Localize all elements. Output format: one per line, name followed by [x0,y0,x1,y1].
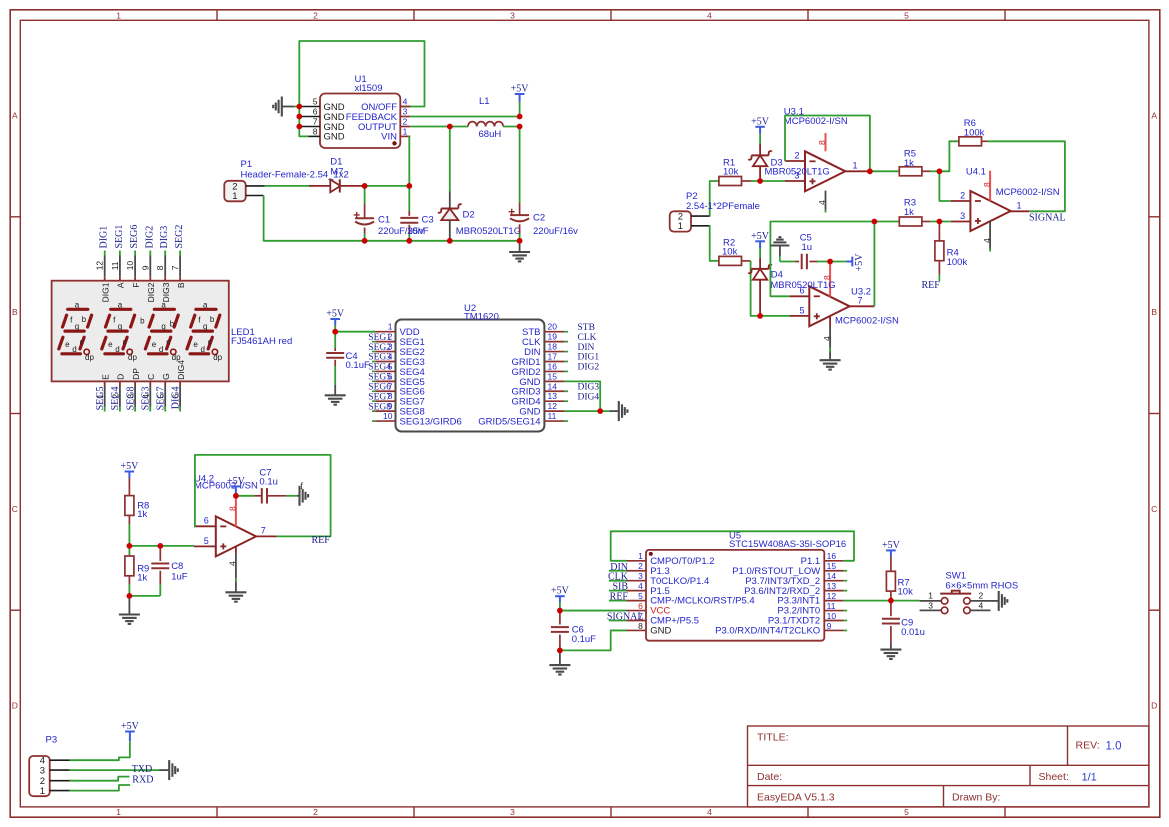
svg-text:P3: P3 [46,734,58,745]
svg-text:10: 10 [125,261,135,271]
border column ticks top and bottom [217,10,1005,817]
resistor R3 1k [899,198,930,227]
LED1 top pin 11 (A) net SEG1 [110,225,126,289]
node junction C8 top [157,543,163,549]
U2 pin 13 GRID4 net DIG4 [511,391,599,407]
U5 pin 15 P1.0/RSTOUT_LOW [732,561,847,577]
node junction R3/U3.2 loop [872,219,878,225]
LED1 top pin 9 (DIG2) net DIG2 [140,226,156,303]
svg-text:A: A [1151,111,1157,121]
U2 pin 19 CLK net CLK [522,332,597,348]
ground symbol below R9 [119,596,140,624]
resistor R7 10k [886,557,913,601]
svg-text:+5V: +5V [551,586,570,597]
svg-text:6: 6 [638,601,643,611]
svg-text:3: 3 [403,107,408,117]
wire U3.2 output up [873,222,875,307]
capacitor C6 0.1uF [551,611,596,651]
svg-text:10k: 10k [723,167,739,178]
svg-text:C3: C3 [422,214,434,225]
svg-text:DIG1: DIG1 [99,226,110,249]
wire R3 row [874,221,899,223]
ground symbol below C9 [880,649,901,651]
node junction R3/R4/pin3 [937,219,943,225]
svg-text:3: 3 [510,10,515,20]
wire FEEDBACK to +5V node [410,116,519,118]
svg-text:GND: GND [324,132,345,143]
ground arrow at U1 pin5 [273,97,299,117]
svg-text:6: 6 [313,107,318,117]
power flag +5V at D4 [751,231,770,258]
svg-text:100k: 100k [964,128,985,139]
svg-text:e: e [193,340,198,349]
wire R8/R9 node to C8 and pin5 [129,545,194,547]
U5 pin 6 VCC [627,601,671,617]
power flag +5V rotated at C5 [830,253,865,272]
svg-text:+5V: +5V [751,116,770,127]
LED1 top pin 12 (DIG1) net DIG1 [95,226,111,303]
svg-text:b: b [210,315,215,324]
border column numbers [116,10,909,817]
svg-text:f: f [300,481,303,491]
wire P1 pin1 to ground rail [264,196,520,241]
svg-text:0.1uF: 0.1uF [572,634,596,645]
node junction R7/C9/INT1 [888,598,894,604]
svg-text:3: 3 [40,765,45,776]
svg-text:18: 18 [548,342,558,352]
connector P1 Header-Female-2.54_1x2 [224,159,348,202]
svg-text:DP: DP [131,368,141,380]
resistor R6 100k [959,118,988,146]
U2 pin 14 GRID3 net DIG3 [511,381,599,397]
svg-text:13: 13 [827,581,837,591]
wire U2 pin15 GND [565,381,601,411]
svg-text:11: 11 [548,411,557,421]
svg-text:MBR0520LT1G: MBR0520LT1G [456,226,521,237]
U2 pin 20 STB net STB [522,322,595,338]
ground symbol U3.2 pin4 [820,359,841,361]
svg-text:SEG1: SEG1 [114,225,125,249]
U2 pin 3 SEG2 net SEG2 [368,342,425,358]
wire P2 pin2 to R1 [709,181,719,216]
node junction R1/D3/pin3 [757,178,763,184]
svg-text:4: 4 [638,581,643,591]
node junction C6/GND [557,648,563,654]
capacitor C7 0.1u [236,468,297,504]
U2 pin 7 SEG6 net SEG6 [368,381,425,397]
svg-text:+5V: +5V [326,309,345,320]
capacitor C2 220uF/16v [509,127,578,241]
svg-text:8: 8 [155,265,165,270]
svg-text:C: C [1151,504,1157,514]
svg-text:1: 1 [232,191,237,202]
U2 pin 12 GND [519,401,564,417]
svg-text:7: 7 [261,525,266,535]
node junction R9/C8 bottom [126,593,132,599]
svg-text:a: a [203,301,208,310]
svg-text:5: 5 [204,536,209,546]
svg-text:8: 8 [638,621,643,631]
svg-text:SEG3: SEG3 [141,387,152,411]
svg-text:16: 16 [827,551,837,561]
svg-text:g: g [161,322,165,331]
node junction R5/R6/pin2 [937,168,943,174]
wire P3 pin2 RXD [70,777,130,781]
power flag +5V at P3 [121,721,140,741]
node junction pin8/C7 [233,493,239,499]
capacitor C1 220uF/35V [354,186,425,241]
svg-text:FJ5461AH red: FJ5461AH red [231,336,292,347]
svg-text:3: 3 [510,807,515,817]
U2 pin 17 GRID1 net DIG1 [511,351,599,367]
svg-text:STB: STB [578,323,595,333]
svg-text:a: a [118,301,123,310]
svg-text:1u: 1u [802,242,813,253]
svg-text:B: B [176,282,186,288]
svg-text:D: D [116,374,126,380]
svg-text:9: 9 [140,265,150,270]
svg-text:SIGNAL: SIGNAL [1029,213,1066,224]
svg-text:GND: GND [650,626,671,637]
svg-text:0.1u: 0.1u [259,476,278,487]
node junction rail/C3 [406,238,412,244]
U2 pin 5 SEG4 net SEG4 [368,361,425,377]
svg-text:EasyEDA V5.1.3: EasyEDA V5.1.3 [757,792,835,804]
svg-text:12: 12 [548,401,558,411]
svg-text:U4.1: U4.1 [966,166,986,177]
svg-text:D: D [12,701,18,711]
svg-text:4: 4 [817,200,827,205]
svg-text:10k: 10k [722,246,738,257]
border row letters [12,111,1158,711]
svg-text:STC15W408AS-35I-SOP16: STC15W408AS-35I-SOP16 [729,539,846,550]
svg-text:B: B [1151,307,1157,317]
op-amp U3.2 MCP6002-I/SN [790,262,899,361]
svg-text:E: E [100,374,110,380]
ground symbol power rail [509,241,530,262]
svg-text:C1: C1 [378,214,390,225]
wire U3.2 feedback loop [770,222,874,297]
ground arrow at U2 [610,401,628,421]
svg-text:C: C [146,374,156,380]
svg-text:dp: dp [213,353,222,362]
U2 pin 10 SEG13/GIRD6 [372,411,462,427]
wire P2 pin1 to R2 [709,226,719,261]
capacitor C8 1uF [129,546,187,596]
svg-text:DIG3: DIG3 [161,282,171,302]
inductor L1 68uH [468,96,503,140]
resistor R1 10k [719,158,751,186]
svg-text:DIG4: DIG4 [170,387,181,410]
svg-text:2: 2 [960,190,965,200]
LED1 digit 3 segments [140,301,181,363]
svg-text:D4: D4 [771,269,783,280]
svg-text:1/1: 1/1 [1082,772,1097,784]
LED1 bottom pin 2 (D) net SEG4 [110,374,126,412]
wire U1 feedback loop (pin4 to GND column) [299,41,424,107]
svg-text:17: 17 [548,351,558,361]
node junction U3.1 output [867,168,873,174]
wire +5V to U2 VDD [335,331,375,333]
chip U1 xl1509 [299,74,410,148]
svg-text:dp: dp [85,353,94,362]
svg-text:5: 5 [904,807,909,817]
svg-text:SEG6: SEG6 [129,225,140,249]
svg-text:1: 1 [638,551,643,561]
svg-text:3: 3 [928,600,933,610]
svg-text:4: 4 [707,807,712,817]
resistor R5 1k [899,149,930,176]
svg-text:A: A [12,111,18,121]
LED1 digit 4 segments [187,301,223,363]
svg-text:SEG2: SEG2 [174,225,185,249]
node junction C5/pin8 [827,259,833,265]
svg-text:2: 2 [979,591,984,601]
svg-text:RXD: RXD [132,775,153,786]
U5 pin 3 T0CLKO/P1.4 net CLK [608,571,709,587]
svg-text:1: 1 [388,322,393,332]
svg-text:6: 6 [204,516,209,526]
svg-text:8: 8 [313,127,318,137]
svg-text:D: D [1151,701,1157,711]
svg-text:4: 4 [228,561,238,566]
svg-text:+5V: +5V [751,231,770,242]
diode D2 MBR0520LT1G [438,127,521,241]
node junction OUTPUT/D2 [447,124,453,130]
wire U3.1 feedback loop [785,116,870,172]
U5 pin 10 P3.1/TXDT2 [768,611,847,627]
U2 pin 11 GRID5/SEG14 [478,411,568,427]
wire U4.2 feedback loop [194,455,331,537]
U2 pin 6 SEG5 net SEG5 [368,371,425,387]
svg-text:2: 2 [313,10,318,20]
svg-text:1k: 1k [137,572,147,583]
svg-text:2: 2 [313,807,318,817]
power flag +5V main output [511,84,530,117]
svg-text:1: 1 [40,786,45,797]
svg-text:b: b [140,317,145,326]
svg-text:D2: D2 [463,210,475,221]
svg-text:L1: L1 [479,96,490,107]
diode D3 MBR0520LT1G [748,144,830,181]
wire U5 VCC to +5V [560,610,627,612]
LED1 bottom pin 5 (G) net SEG7 [155,373,171,411]
svg-text:+5V: +5V [854,253,865,272]
connector P3 header [29,734,69,797]
node junction R2/D4/pin5 [757,313,763,319]
svg-text:2: 2 [403,117,408,127]
svg-text:1k: 1k [137,509,147,520]
svg-text:SEG8: SEG8 [125,387,136,411]
wire node to U3.1 pin3 [760,180,785,182]
LED1 top pin 7 (B) net SEG2 [170,225,186,289]
svg-text:5: 5 [313,97,318,107]
svg-text:13: 13 [548,391,558,401]
resistor R8 1k [125,478,149,546]
svg-text:DIN: DIN [578,343,595,353]
LED1 top pin 10 (F) net SEG6 [125,225,141,288]
svg-text:+5V: +5V [882,540,901,551]
svg-text:DIG3: DIG3 [159,226,170,249]
svg-text:G: G [161,373,171,380]
svg-text:REF: REF [312,535,331,546]
svg-text:REV:: REV: [1076,740,1100,752]
node junction rail/C1 [362,238,368,244]
svg-text:e: e [108,340,113,349]
capacitor C9 0.01u [882,601,925,650]
svg-text:g: g [203,322,207,331]
svg-text:15: 15 [548,371,558,381]
svg-text:C: C [12,504,18,514]
ground arrow at P3 pin3 [159,760,178,780]
U5 pin 1 CMPO/T0/P1.2 [627,551,715,567]
svg-text:b: b [82,315,87,324]
wire U1 left GND column [299,107,308,137]
diode D1 M7 [309,157,365,193]
svg-text:c: c [208,338,212,347]
svg-text:2: 2 [638,561,643,571]
svg-text:VIN: VIN [381,132,397,143]
svg-text:14: 14 [827,571,837,581]
node junction R8/R9/C8 [126,543,132,549]
wire R1 to D3 node [751,180,760,182]
svg-text:c: c [123,338,127,347]
wire U2 pin12 GND [565,410,610,412]
svg-text:SEG5: SEG5 [95,387,106,411]
svg-text:d: d [72,345,76,354]
U5 pin 5 CMP-/MCLKO/RST/P5.4 net REF [610,591,755,607]
power flag +5V at R8 [120,461,139,478]
svg-text:1.0: 1.0 [1106,741,1122,753]
svg-text:4: 4 [822,336,832,341]
svg-text:8: 8 [228,506,238,511]
wire P3 pin3 TXD [70,769,160,771]
svg-text:1k: 1k [904,207,914,218]
svg-text:7: 7 [313,117,318,127]
svg-text:19: 19 [548,332,558,342]
wire R2 to D4 node [751,261,761,316]
svg-text:e: e [152,340,157,349]
LED1 bottom pin 3 (DP) net SEG8 [125,368,141,412]
svg-text:4: 4 [403,97,408,107]
svg-text:d: d [159,345,163,354]
svg-text:20: 20 [548,322,558,332]
svg-text:dp: dp [172,353,181,362]
svg-text:10: 10 [827,611,837,621]
chip U2 TM1620 body [396,303,545,432]
svg-text:F: F [131,283,141,288]
wire OUTPUT to L1 [410,126,468,128]
svg-text:1: 1 [678,221,683,232]
capacitor C4 0.1uF [326,332,370,385]
svg-text:11: 11 [827,601,836,611]
svg-text:Drawn By:: Drawn By: [952,792,1000,804]
U5 pin 7 CMP+/P5.5 net SIGNAL [607,611,699,627]
svg-text:3: 3 [960,211,965,221]
capacitor C3 10nF [400,186,433,241]
svg-text:+5V: +5V [121,721,140,732]
ground symbol inverted at C5 [770,237,789,261]
LED1 digit 2 segments [102,301,138,363]
svg-text:SEG13/GIRD6: SEG13/GIRD6 [400,416,462,427]
svg-text:c: c [80,338,84,347]
svg-text:DIG4: DIG4 [176,360,186,380]
wire R5 to node [930,170,939,172]
power flag +5V at C7 [227,476,246,496]
wire D1 to VIN column [365,185,410,187]
wire R6 feedback to U4.1 output [988,141,1065,211]
svg-text:MCP6002-I/SN: MCP6002-I/SN [835,316,899,327]
svg-text:U3.2: U3.2 [851,286,871,297]
svg-text:DIG1: DIG1 [578,353,600,363]
U2 pin 8 SEG7 net SEG7 [368,391,425,407]
power flag +5V at D3 [751,116,770,144]
U2 pin 9 SEG8 net SEG8 [368,401,425,417]
svg-text:d: d [115,345,119,354]
svg-text:10k: 10k [898,587,914,598]
svg-text:14: 14 [548,381,558,391]
wire stubs U5 pins 2-5 [609,571,627,601]
svg-text:8: 8 [982,182,992,187]
chip U5 STC15W408AS-35I-SOP16 body [646,531,846,641]
svg-text:CLK: CLK [578,333,597,343]
border row ticks left and right [10,217,1160,610]
U2 pin 15 GND [519,371,564,387]
svg-text:a: a [161,301,166,310]
svg-text:xl1509: xl1509 [355,83,383,94]
svg-text:g: g [118,322,122,331]
svg-text:e: e [65,340,70,349]
svg-text:DIG1: DIG1 [100,282,110,302]
LED1 bottom pin 4 (C) net SEG3 [141,374,157,412]
svg-text:6×6×5mm RHOS: 6×6×5mm RHOS [945,581,1018,592]
node junction D1/C1 [362,183,368,189]
svg-text:4: 4 [979,600,984,610]
svg-text:0.01u: 0.01u [901,627,925,638]
display LED1 FJ5461AH body [52,281,229,382]
op-amp U4.1 MCP6002-I/SN [951,166,1060,251]
svg-text:TITLE:: TITLE: [757,732,789,744]
svg-text:7: 7 [170,265,180,270]
svg-text:C8: C8 [171,561,183,572]
resistor R4 100k [935,222,968,282]
node junction U2 GND [597,408,603,414]
power flag +5V at C6 [551,586,570,611]
node junction rail/C2 [517,238,523,244]
svg-text:3: 3 [638,571,643,581]
U5 pin 11 P3.2/INT0 [777,601,847,617]
wire VIN down to D1 row [408,136,409,186]
svg-text:SEG7: SEG7 [155,387,166,411]
U2 pin 4 SEG3 net SEG3 [368,351,425,367]
svg-text:Sheet:: Sheet: [1039,771,1069,783]
svg-text:C2: C2 [533,213,545,224]
LED1 top pin 8 (DIG3) net DIG3 [155,226,171,303]
U5 pin 4 P1.5 net SIB [612,581,669,597]
U5 pin 9 P3.0/RXD/INT4/T2CLKO [715,621,847,637]
svg-text:SEG4: SEG4 [110,387,121,411]
svg-text:9: 9 [827,621,832,631]
node junction rail/D2 [447,238,453,244]
U2 pin 18 DIN net DIN [524,342,594,358]
svg-text:g: g [75,322,79,331]
svg-text:DIG2: DIG2 [578,363,600,373]
wire U5 GND down [560,630,627,650]
svg-text:DIG3: DIG3 [578,382,600,392]
U5 pin 8 GND [627,621,672,637]
svg-text:100k: 100k [947,257,968,268]
node junction VIN/C3 [406,183,412,189]
